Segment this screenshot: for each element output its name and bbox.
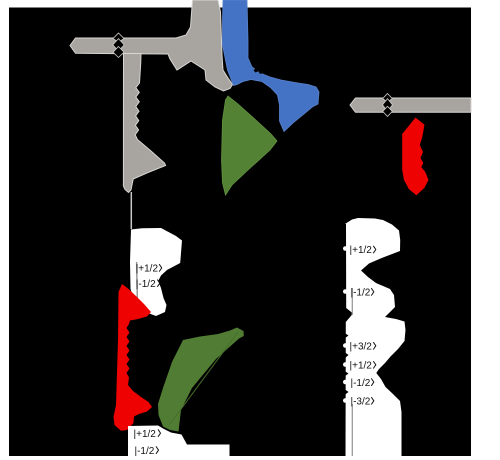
beam B4 break diamonds (383, 94, 393, 117)
left diagram: white label patch upper (130, 228, 182, 316)
label |+3/2> right (350, 342, 376, 353)
label |+1/2> lower-left (134, 429, 161, 440)
right diagram: white column patch (345, 218, 406, 460)
svg-text:|+1/2: |+1/2 (134, 429, 157, 440)
label |+1/2> right upper (350, 245, 376, 256)
beam B1 break diamonds (113, 33, 124, 58)
beam B2: blue hooked beam (223, 0, 320, 132)
beam B5: wide gray arrow descending from left beam (123, 54, 165, 193)
arrow A3 crease line (170, 332, 238, 424)
right diagram: level divider lines (351, 288, 353, 315)
label |+1/2> right (350, 361, 376, 372)
beam B1: left gray horizontal beam with left arrow tip (70, 0, 233, 91)
right diagram: left-edge level tick bumps (343, 246, 348, 403)
label |-1/2> right (351, 288, 374, 299)
label |+1/2> upper-left (136, 264, 162, 275)
label |-1/2> lower-left (135, 446, 159, 457)
label |-1/2> upper-left (136, 279, 160, 290)
right diagram: left-edge level separation dents (345, 333, 349, 395)
arrow A1: red downward arrow below right beam (402, 118, 428, 196)
label |-1/2> right (351, 378, 374, 389)
left diagram: white label patch lower (128, 426, 230, 460)
svg-text:|+1/2: |+1/2 (350, 245, 373, 256)
beam B4: right gray horizontal beam with left arrow tip (350, 98, 471, 112)
arrow A2: red vertical double-headed arrow (left diagram) (114, 284, 153, 431)
svg-text:|+1/2: |+1/2 (350, 361, 373, 372)
arrow A3: green diagonal arrow (left diagram) (158, 328, 244, 432)
beam B2 break nicks (254, 69, 264, 75)
wire: thin line from gray arrow tip down to left level diagram (130, 192, 132, 229)
label |-3/2> right (351, 397, 374, 408)
svg-text:|-1/2: |-1/2 (136, 279, 156, 290)
svg-text:|-1/2: |-1/2 (351, 288, 371, 299)
svg-text:|-1/2: |-1/2 (351, 378, 371, 389)
svg-text:|+3/2: |+3/2 (350, 342, 373, 353)
beam B3: green triangle beam (222, 96, 278, 195)
svg-text:|-1/2: |-1/2 (135, 446, 155, 457)
left diagram: level divider line (136, 262, 139, 303)
svg-text:|+1/2: |+1/2 (136, 264, 159, 275)
svg-text:|-3/2: |-3/2 (351, 397, 371, 408)
